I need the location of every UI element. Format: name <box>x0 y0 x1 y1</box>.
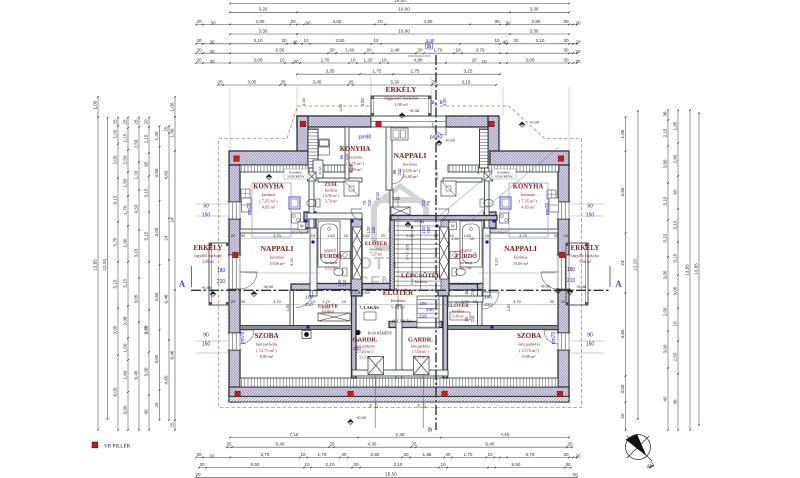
svg-text:10,00: 10,00 <box>398 7 410 12</box>
svg-text:SZEKRÉNY: SZEKRÉNY <box>495 174 513 179</box>
svg-text:74: 74 <box>417 404 421 408</box>
svg-text:30: 30 <box>241 299 246 304</box>
svg-text:3,00: 3,00 <box>144 367 149 376</box>
svg-text:4,60: 4,60 <box>620 187 625 196</box>
svg-text:5,75: 5,75 <box>113 237 118 246</box>
svg-text:20: 20 <box>353 462 359 467</box>
svg-text:6,46: 6,46 <box>170 350 175 359</box>
svg-text:20: 20 <box>196 48 202 53</box>
svg-text:5,50: 5,50 <box>276 48 285 53</box>
svg-text:3,30: 3,30 <box>530 28 539 33</box>
svg-text:24: 24 <box>164 235 169 241</box>
svg-text:30: 30 <box>563 48 569 53</box>
svg-text:+6,00: +6,00 <box>540 284 551 289</box>
svg-text:30: 30 <box>209 49 215 54</box>
svg-text:20: 20 <box>144 119 149 125</box>
svg-text:10: 10 <box>311 299 316 304</box>
svg-text:ELŐTÉR: ELŐTÉR <box>383 287 414 297</box>
svg-text:2,40: 2,40 <box>391 48 400 53</box>
svg-text:1,00: 1,00 <box>338 103 343 112</box>
svg-text:12,20: 12,20 <box>102 259 107 271</box>
svg-text:fagyálló burkolat: fagyálló burkolat <box>571 253 599 258</box>
svg-text:6,05: 6,05 <box>113 387 118 396</box>
svg-text:240: 240 <box>371 226 376 234</box>
svg-text:150: 150 <box>202 342 211 348</box>
svg-text:80: 80 <box>464 289 469 294</box>
svg-text:25: 25 <box>411 442 417 447</box>
svg-text:30: 30 <box>554 233 559 238</box>
svg-text:30: 30 <box>209 40 215 45</box>
svg-text:3,10: 3,10 <box>254 38 263 43</box>
svg-text:ERKÉLY: ERKÉLY <box>194 244 223 252</box>
svg-text:25: 25 <box>348 79 354 84</box>
svg-text:30: 30 <box>563 452 569 457</box>
svg-text:16,50: 16,50 <box>385 472 397 477</box>
svg-text:M: M <box>300 224 304 229</box>
svg-text:25: 25 <box>217 79 223 84</box>
svg-text:szigetelt: szigetelt <box>324 249 336 253</box>
svg-text:5,15: 5,15 <box>123 278 128 287</box>
svg-text:150: 150 <box>586 213 595 219</box>
svg-text:3,00: 3,00 <box>526 57 535 62</box>
svg-text:kerámia: kerámia <box>403 162 417 167</box>
svg-text:3,70: 3,70 <box>476 48 485 53</box>
svg-text:10: 10 <box>373 38 379 43</box>
svg-text:13,85: 13,85 <box>694 263 699 275</box>
svg-text:65: 65 <box>673 189 678 195</box>
svg-text:KONYHA: KONYHA <box>340 146 371 153</box>
svg-text:10: 10 <box>455 48 461 53</box>
svg-text:2,50: 2,50 <box>144 325 149 334</box>
svg-text:4,60: 4,60 <box>620 329 625 338</box>
svg-text:2,10: 2,10 <box>394 462 403 467</box>
svg-text:3,15: 3,15 <box>673 220 678 229</box>
svg-text:1,70: 1,70 <box>123 205 128 214</box>
svg-text:4,60: 4,60 <box>154 168 159 177</box>
svg-text:1,05: 1,05 <box>620 129 625 138</box>
svg-text:210: 210 <box>344 153 349 161</box>
svg-text:240: 240 <box>426 226 431 234</box>
svg-text:3,05: 3,05 <box>673 286 678 295</box>
svg-text:25: 25 <box>123 119 128 125</box>
svg-text:3,05: 3,05 <box>663 270 668 279</box>
watermark logo <box>374 186 426 248</box>
svg-text:250: 250 <box>353 346 361 351</box>
svg-text:30: 30 <box>403 452 409 457</box>
svg-text:30: 30 <box>209 453 215 458</box>
svg-text:5,40: 5,40 <box>276 442 285 447</box>
svg-text:6,45: 6,45 <box>134 370 139 379</box>
svg-text:180: 180 <box>567 267 576 273</box>
svg-text:210: 210 <box>419 314 427 319</box>
svg-text:kerámia: kerámia <box>391 298 406 303</box>
svg-text:10: 10 <box>303 38 309 43</box>
svg-text:1,70: 1,70 <box>464 452 473 457</box>
svg-text:210: 210 <box>392 196 400 201</box>
svg-text:2,70: 2,70 <box>321 57 330 62</box>
svg-text:2,50: 2,50 <box>673 352 678 361</box>
svg-text:2,82: 2,82 <box>371 452 380 457</box>
svg-text:+6,00: +6,00 <box>263 284 274 289</box>
svg-text:Ø=20 KÉMÉNY: Ø=20 KÉMÉNY <box>368 331 393 336</box>
svg-text:20: 20 <box>341 452 347 457</box>
svg-text:20: 20 <box>381 233 386 238</box>
section line A-A horizontal <box>191 289 610 291</box>
svg-text:4,00: 4,00 <box>333 19 342 24</box>
svg-text:25: 25 <box>154 402 159 408</box>
svg-text:1,00: 1,00 <box>170 102 175 111</box>
svg-text:20: 20 <box>564 233 569 238</box>
svg-text:20: 20 <box>195 472 201 477</box>
svg-text:1,00: 1,00 <box>93 100 98 109</box>
svg-text:3,20: 3,20 <box>289 257 294 266</box>
svg-text:40: 40 <box>144 409 149 415</box>
svg-text:210: 210 <box>367 199 372 207</box>
svg-text:7. LAKÁS: 7. LAKÁS <box>359 305 379 310</box>
svg-text:SZOBA: SZOBA <box>517 332 542 340</box>
svg-text:117: 117 <box>375 403 379 409</box>
svg-text:120: 120 <box>442 98 447 106</box>
svg-text:2,58: 2,58 <box>134 139 139 148</box>
svg-text:210: 210 <box>484 302 492 307</box>
svg-text:40: 40 <box>292 40 298 45</box>
svg-text:4,90: 4,90 <box>414 57 423 62</box>
svg-text:240: 240 <box>426 307 434 312</box>
svg-text:kerámia: kerámia <box>460 261 473 265</box>
stair LEPCSOTER <box>395 220 442 290</box>
svg-text:210: 210 <box>217 279 226 285</box>
svg-text:25: 25 <box>170 422 175 428</box>
svg-text:1,70: 1,70 <box>322 299 331 304</box>
svg-text:3,10: 3,10 <box>536 38 545 43</box>
svg-text:36: 36 <box>673 399 678 405</box>
svg-text:FÜRDŐ: FÜRDŐ <box>455 252 477 260</box>
svg-text:75: 75 <box>426 200 431 205</box>
svg-text:3,50: 3,50 <box>336 38 345 43</box>
svg-text:3,15: 3,15 <box>464 69 473 74</box>
terrace edge bands <box>240 165 352 172</box>
svg-text:3,00: 3,00 <box>663 344 668 353</box>
svg-text:pm90: pm90 <box>359 135 372 141</box>
svg-text:3,05: 3,05 <box>248 79 257 84</box>
svg-text:210: 210 <box>470 288 475 296</box>
svg-text:20: 20 <box>196 57 202 62</box>
svg-text:30: 30 <box>199 462 205 467</box>
svg-text:1,85: 1,85 <box>286 305 290 312</box>
svg-text:10: 10 <box>440 462 446 467</box>
svg-text:kerámia: kerámia <box>348 155 362 160</box>
svg-text:100: 100 <box>484 295 492 300</box>
svg-text:20: 20 <box>575 453 581 458</box>
svg-text:25: 25 <box>280 79 286 84</box>
svg-text:3,70: 3,70 <box>526 452 535 457</box>
legend VB PILLER <box>92 442 98 448</box>
svg-text:20: 20 <box>196 452 202 457</box>
svg-text:K.SZ.: K.SZ. <box>318 166 322 174</box>
svg-text:30: 30 <box>565 462 571 467</box>
svg-text:4,60: 4,60 <box>154 292 159 301</box>
svg-text:25: 25 <box>329 442 335 447</box>
svg-text:M: M <box>451 224 455 229</box>
svg-text:1,20: 1,20 <box>134 170 139 179</box>
left dimension chains <box>97 97 99 430</box>
svg-text:kerámia: kerámia <box>322 310 335 314</box>
svg-text:30: 30 <box>563 19 569 24</box>
exterior walls <box>297 116 371 127</box>
svg-text:30: 30 <box>241 233 246 238</box>
svg-text:kerámia: kerámia <box>521 192 535 197</box>
svg-text:117: 117 <box>423 403 427 409</box>
svg-text:10: 10 <box>673 321 678 327</box>
svg-text:3,70: 3,70 <box>273 299 282 304</box>
svg-text:210: 210 <box>470 315 475 323</box>
svg-text:20: 20 <box>561 299 566 304</box>
svg-text:210: 210 <box>342 279 347 287</box>
svg-text:GARDR.: GARDR. <box>408 337 433 344</box>
svg-text:2,50: 2,50 <box>663 307 668 316</box>
svg-text:9. LAKÁS: 9. LAKÁS <box>350 290 370 295</box>
svg-text:5,15: 5,15 <box>113 279 118 288</box>
svg-text:24: 24 <box>620 260 625 266</box>
svg-text:3,00: 3,00 <box>154 354 159 363</box>
svg-text:7,15: 7,15 <box>501 432 510 437</box>
svg-text:10: 10 <box>300 452 306 457</box>
svg-text:10: 10 <box>279 57 285 62</box>
svg-text:36: 36 <box>663 111 668 117</box>
svg-text:3,30: 3,30 <box>259 28 268 33</box>
svg-text:1,60: 1,60 <box>123 370 128 379</box>
svg-text:5,15: 5,15 <box>673 253 678 262</box>
svg-text:1,00: 1,00 <box>301 97 306 106</box>
svg-text:pm70: pm70 <box>247 203 253 216</box>
svg-text:2,10: 2,10 <box>326 462 335 467</box>
svg-text:5,15: 5,15 <box>663 233 668 242</box>
svg-text:3,00: 3,00 <box>123 405 128 414</box>
svg-text:SZEKRÉNY: SZEKRÉNY <box>287 174 305 179</box>
svg-text:3,30: 3,30 <box>530 7 539 12</box>
svg-text:20: 20 <box>293 59 299 64</box>
svg-text:NAPPALI: NAPPALI <box>394 151 427 160</box>
svg-text:kerámia: kerámia <box>325 189 338 193</box>
svg-text:1,55: 1,55 <box>123 178 128 187</box>
roof overhang dashed outline <box>219 106 582 407</box>
svg-text:2,15: 2,15 <box>144 134 149 143</box>
svg-text:1,90: 1,90 <box>123 238 128 247</box>
svg-text:3,00: 3,00 <box>154 227 159 236</box>
svg-text:3,45: 3,45 <box>313 79 322 84</box>
svg-text:25: 25 <box>113 119 118 125</box>
svg-text:90: 90 <box>203 204 209 210</box>
svg-text:4,30: 4,30 <box>368 442 377 447</box>
svg-text:pm70: pm70 <box>551 332 557 345</box>
svg-text:1,80: 1,80 <box>507 305 511 312</box>
svg-text:10: 10 <box>311 233 316 238</box>
svg-text:NAPPALI: NAPPALI <box>504 244 537 253</box>
svg-text:25: 25 <box>164 126 169 132</box>
svg-text:kerámia: kerámia <box>262 192 276 197</box>
svg-text:90: 90 <box>464 316 469 321</box>
svg-text:12,20: 12,20 <box>633 259 638 271</box>
svg-text:A: A <box>179 279 186 289</box>
svg-text:ELŐTÉR: ELŐTÉR <box>365 239 388 247</box>
svg-text:8,15: 8,15 <box>113 195 118 204</box>
svg-text:20: 20 <box>505 20 511 25</box>
svg-text:65: 65 <box>144 161 149 167</box>
svg-text:20: 20 <box>290 19 296 24</box>
svg-text:19,00: 19,00 <box>394 0 406 3</box>
svg-text:20: 20 <box>575 59 581 64</box>
svg-text:20: 20 <box>445 452 451 457</box>
svg-text:2,30: 2,30 <box>396 432 405 437</box>
svg-text:+0,00: +0,00 <box>356 415 367 420</box>
svg-text:1,60: 1,60 <box>346 48 355 53</box>
svg-text:20: 20 <box>572 472 578 477</box>
svg-text:20: 20 <box>281 38 287 43</box>
svg-text:2,80: 2,80 <box>532 19 541 24</box>
svg-text:25: 25 <box>226 442 232 447</box>
svg-text:10: 10 <box>304 462 310 467</box>
svg-text:A: A <box>615 279 622 289</box>
svg-text:3,20: 3,20 <box>494 257 499 266</box>
svg-text:5,15: 5,15 <box>144 231 149 240</box>
interior dimension texts <box>240 237 560 239</box>
right dimension chains <box>625 117 627 430</box>
svg-text:2,80: 2,80 <box>256 19 265 24</box>
svg-text:13,85: 13,85 <box>93 259 98 271</box>
svg-text:4,60: 4,60 <box>164 170 169 179</box>
svg-text:kerámia: kerámia <box>452 309 465 313</box>
svg-text:3,08: 3,08 <box>123 316 128 325</box>
svg-text:függesztő burkolat: függesztő burkolat <box>384 96 418 101</box>
svg-text:10: 10 <box>481 59 487 64</box>
top dimension chains <box>229 87 231 151</box>
svg-text:10: 10 <box>381 57 387 62</box>
svg-text:3,00: 3,00 <box>620 384 625 393</box>
svg-text:10: 10 <box>377 19 383 24</box>
svg-text:20: 20 <box>471 57 477 62</box>
svg-text:40: 40 <box>502 40 508 45</box>
svg-text:1,40: 1,40 <box>154 131 159 140</box>
svg-text:210: 210 <box>397 168 402 176</box>
svg-text:SV-S FAGELŐP: SV-S FAGELŐP <box>291 231 309 234</box>
svg-text:20: 20 <box>513 38 519 43</box>
svg-text:30: 30 <box>209 59 215 64</box>
svg-text:1,70: 1,70 <box>434 48 443 53</box>
svg-text:lam.parketta: lam.parketta <box>256 342 277 347</box>
svg-text:210: 210 <box>567 278 576 284</box>
svg-text:180: 180 <box>217 268 226 274</box>
svg-text:20: 20 <box>231 299 236 304</box>
svg-text:FÜRDŐ: FÜRDŐ <box>320 252 342 260</box>
svg-text:ZUH.: ZUH. <box>324 182 338 188</box>
svg-text:1,85: 1,85 <box>673 121 678 130</box>
svg-text:+7,54: +7,54 <box>414 219 425 224</box>
svg-text:1,75: 1,75 <box>411 69 420 74</box>
svg-text:fagyálló burkolat: fagyálló burkolat <box>194 253 222 258</box>
svg-text:10: 10 <box>494 38 500 43</box>
svg-text:3,05: 3,05 <box>113 325 118 334</box>
svg-text:4,50: 4,50 <box>134 204 139 213</box>
svg-text:3,70: 3,70 <box>261 452 270 457</box>
svg-text:3,00: 3,00 <box>254 57 263 62</box>
svg-text:3,15: 3,15 <box>462 79 471 84</box>
svg-text:VB PILLÉR: VB PILLÉR <box>104 442 131 450</box>
svg-text:20: 20 <box>417 48 423 53</box>
svg-text:6,46: 6,46 <box>164 294 169 303</box>
svg-text:100: 100 <box>419 301 427 306</box>
svg-text:20: 20 <box>575 40 581 45</box>
svg-text:pm70: pm70 <box>240 332 246 345</box>
svg-text:kerámia: kerámia <box>415 280 428 284</box>
svg-text:10: 10 <box>344 233 349 238</box>
svg-text:1,60: 1,60 <box>451 237 458 241</box>
windows left wall <box>229 202 240 219</box>
furniture <box>318 221 340 267</box>
svg-text:4,90: 4,90 <box>424 19 433 24</box>
navy wall end squares <box>305 220 308 223</box>
svg-text:3,70: 3,70 <box>273 233 282 238</box>
svg-text:30: 30 <box>563 57 569 62</box>
VB pillar red squares <box>300 121 306 127</box>
svg-text:20: 20 <box>575 20 581 25</box>
svg-text:10: 10 <box>350 57 356 62</box>
svg-text:2,15: 2,15 <box>663 128 668 137</box>
svg-text:2,80: 2,80 <box>673 154 678 163</box>
svg-text:30: 30 <box>550 299 555 304</box>
svg-text:kerámia: kerámia <box>370 247 383 251</box>
shafts with X bracing <box>353 227 362 279</box>
svg-text:20: 20 <box>231 233 236 238</box>
svg-text:1,05: 1,05 <box>113 129 118 138</box>
svg-text:ERKÉLY: ERKÉLY <box>386 84 418 94</box>
svg-text:1,15: 1,15 <box>123 133 128 142</box>
svg-text:B: B <box>428 427 433 434</box>
svg-text:30: 30 <box>210 20 216 25</box>
svg-text:25: 25 <box>620 413 625 419</box>
svg-text:4,38: 4,38 <box>434 171 439 180</box>
door swings <box>296 291 313 308</box>
svg-text:1,00: 1,00 <box>123 343 128 352</box>
svg-text:90: 90 <box>587 333 593 339</box>
svg-text:20: 20 <box>434 233 439 238</box>
svg-text:10,00: 10,00 <box>398 28 410 33</box>
svg-text:24: 24 <box>170 217 175 223</box>
svg-text:210: 210 <box>421 199 426 207</box>
svg-text:+5,98: +5,98 <box>201 285 212 290</box>
svg-text:150: 150 <box>586 342 595 348</box>
svg-text:10: 10 <box>473 299 478 304</box>
svg-text:150: 150 <box>202 213 211 219</box>
svg-text:30: 30 <box>563 38 569 43</box>
svg-text:75: 75 <box>354 338 360 343</box>
svg-text:1,70: 1,70 <box>461 299 470 304</box>
svg-text:3,70: 3,70 <box>513 299 522 304</box>
svg-text:30: 30 <box>494 19 500 24</box>
right balcony <box>566 243 588 305</box>
svg-text:+0,00: +0,00 <box>529 120 540 125</box>
svg-text:3,15: 3,15 <box>663 196 668 205</box>
left balcony <box>209 243 229 305</box>
svg-text:40: 40 <box>663 396 668 402</box>
svg-text:kerámia: kerámia <box>514 255 528 260</box>
svg-text:3,80: 3,80 <box>663 159 668 168</box>
svg-text:pm70: pm70 <box>545 203 551 216</box>
svg-text:1,60: 1,60 <box>327 233 336 238</box>
svg-text:25: 25 <box>567 442 573 447</box>
svg-text:3,70: 3,70 <box>519 233 528 238</box>
svg-text:pm90: pm90 <box>430 135 443 141</box>
svg-text:lam.parketta: lam.parketta <box>518 342 539 347</box>
